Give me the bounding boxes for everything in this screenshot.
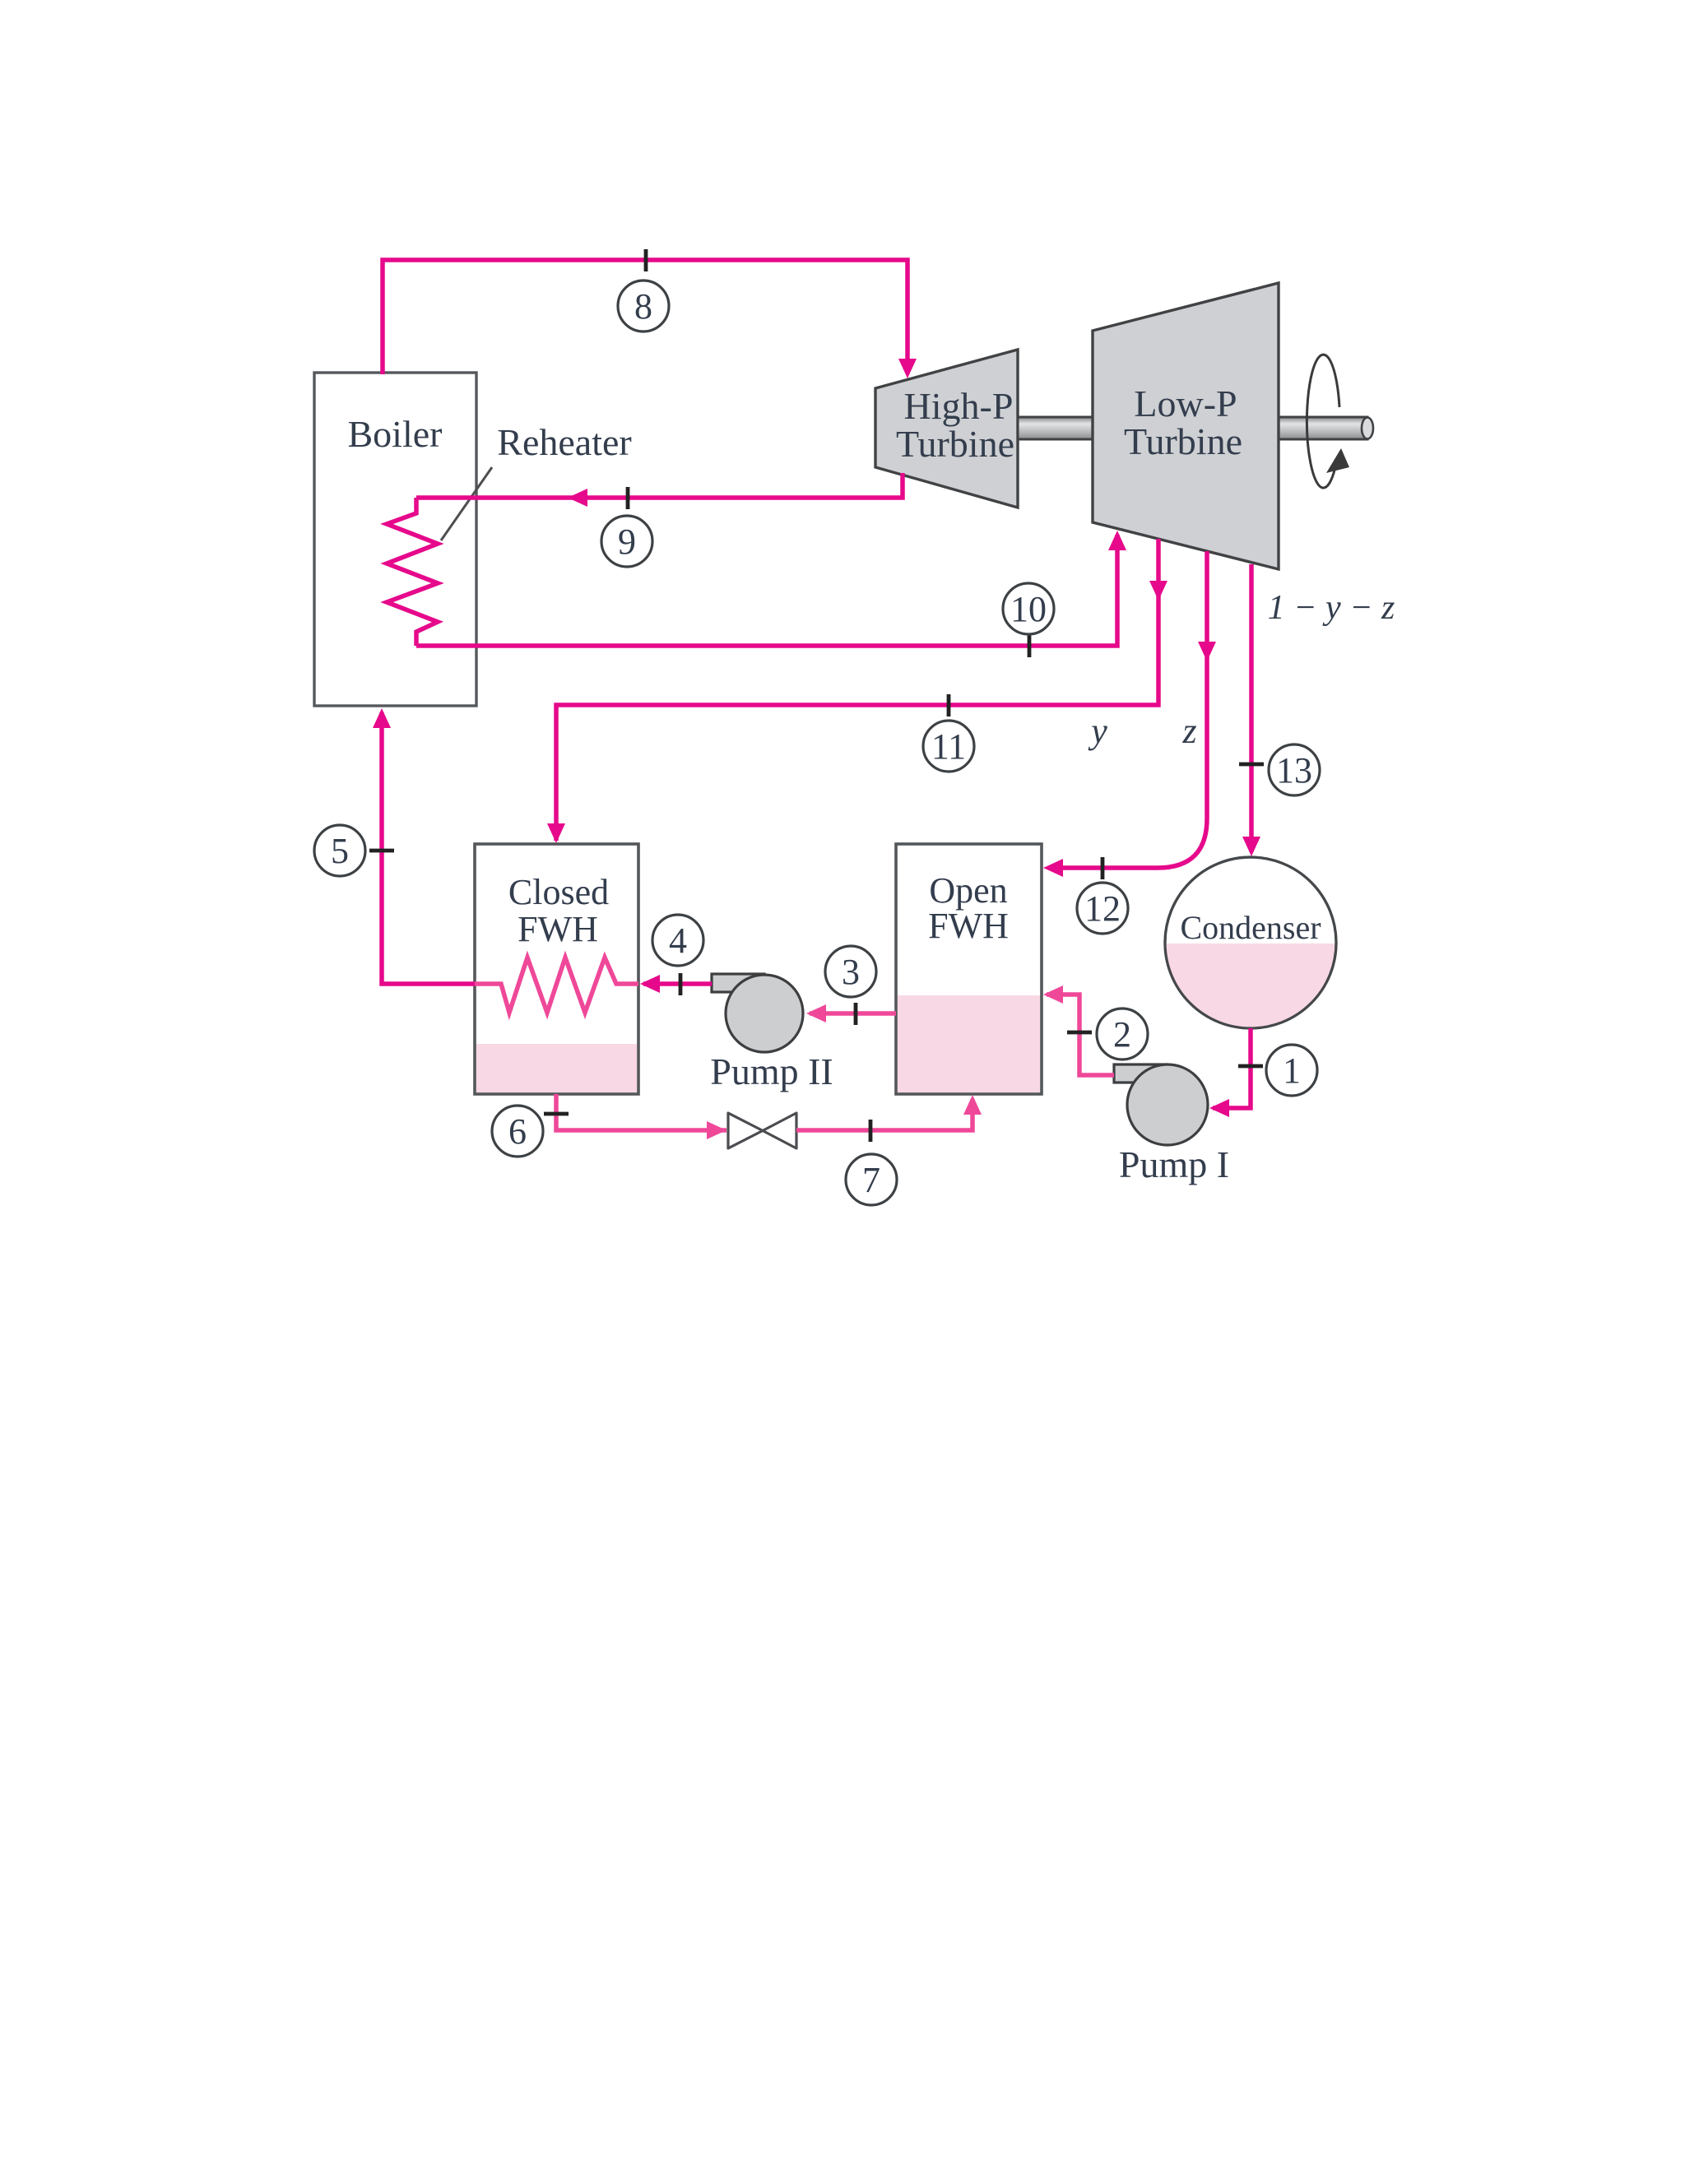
shaft right of LP turbine [1279,417,1373,439]
wire line 6: Closed FWH drain to valve [556,1094,726,1130]
node circle 10 [1003,583,1054,634]
node circle 1 [1266,1045,1317,1096]
svg-text:z: z [1181,711,1196,751]
arrowhead line 1 into Pump I [1209,1099,1229,1117]
node circle 3 [825,946,876,997]
svg-text:2: 2 [1113,1014,1131,1055]
node circle 12 [1077,883,1128,934]
expansion valve between 6 and 7 [728,1113,796,1148]
tick state 9 [626,487,630,509]
svg-text:8: 8 [634,286,652,327]
svg-text:Boiler: Boiler [348,413,443,455]
svg-text:11: 11 [931,726,966,767]
closed FWH [475,844,638,1094]
tick state 2 [1067,1031,1092,1035]
svg-text:Pump I: Pump I [1119,1143,1229,1185]
svg-text:1 − y − z: 1 − y − z [1268,589,1395,627]
boiler [314,373,476,706]
arrowhead line 7 into Open FWH bottom [963,1095,982,1115]
arrowhead line 2 into Open FWH [1043,985,1063,1004]
svg-text:Turbine: Turbine [1124,420,1242,462]
arrowhead line 9 [568,489,587,507]
svg-text:7: 7 [862,1160,880,1200]
reheater coil inside boiler [387,498,438,646]
Low-P turbine [1093,283,1279,569]
tick state 11 [947,694,951,716]
tick state 1 [1238,1064,1263,1069]
wire line 11: LP turbine extraction y to Closed FWH [556,539,1158,841]
svg-text:Reheater: Reheater [497,421,631,463]
svg-text:Low-P: Low-P [1134,383,1237,424]
pump I [1114,1064,1229,1185]
wire line 13: LP turbine exit 1-y-z to condenser [1249,564,1254,852]
closed FWH feedwater coil [475,958,638,1013]
arrowhead z mid [1198,642,1216,661]
wire line 3: Open FWH to Pump II [810,1011,896,1016]
svg-text:5: 5 [331,831,349,871]
arrowhead line 3 into Pump II [806,1004,826,1022]
svg-text:Condenser: Condenser [1180,909,1321,946]
svg-text:6: 6 [508,1111,527,1152]
arrowhead line 13 into condenser [1242,837,1260,856]
node circle 9 [601,516,652,567]
open FWH [896,844,1042,1094]
arrowhead line 12 into Open FWH [1043,859,1063,877]
node circle 5 [314,825,365,876]
wire line 5: Closed FWH to boiler [382,712,475,984]
arrowhead line 11 into Closed FWH [547,823,565,843]
rotation arrow around shaft [1307,355,1349,488]
tick state 8 [644,249,648,271]
arrowhead line 11 mid [1149,581,1167,600]
node circle 4 [652,915,703,966]
svg-text:1: 1 [1283,1050,1301,1091]
wire line 10: reheater exit to Low-P turbine [416,535,1117,646]
wire line 4: Pump II to Closed FWH coil [643,981,712,986]
pump II [710,974,833,1092]
arrowhead line 10 into LP turbine [1108,531,1126,550]
tick state 12 [1101,857,1105,879]
tick state 6 [544,1112,569,1116]
tick state 13 [1239,763,1264,767]
svg-text:FWH: FWH [518,909,598,949]
svg-text:FWH: FWH [928,906,1009,946]
svg-text:10: 10 [1010,589,1047,629]
tick state 4 [679,973,683,995]
node circle 11 [923,721,974,772]
wire line 8: boiler top to High-P turbine [383,260,907,374]
arrowhead line 8 into turbine [898,359,917,378]
wire line 2: Pump I to Open FWH [1047,995,1114,1075]
node circle 7 [846,1154,897,1205]
svg-text:y: y [1088,711,1107,751]
svg-text:High-P: High-P [904,385,1014,427]
svg-text:Turbine: Turbine [896,423,1014,465]
svg-text:4: 4 [669,920,687,961]
node circle 2 [1097,1009,1148,1060]
svg-text:9: 9 [618,522,636,562]
arrowhead line 6 before valve [707,1121,726,1139]
wire line z: LP turbine extraction z to Open FWH (state 12) [1053,551,1207,868]
wire line 9: High-P turbine exit to reheater [416,473,903,498]
svg-text:Closed: Closed [508,872,609,912]
arrowhead line 5 into boiler [373,708,391,728]
svg-text:13: 13 [1276,750,1312,791]
tick state 3 [854,1003,858,1025]
arrowhead line 4 into Closed FWH [640,975,660,993]
node circle 6 [492,1106,543,1157]
tick state 5 [369,849,394,853]
wire line 7: valve to Open FWH [796,1099,972,1130]
wire line 1: condenser to Pump I [1213,1028,1251,1108]
shaft between turbines [1018,417,1093,439]
svg-text:Pump II: Pump II [710,1050,833,1092]
node circle 13 [1269,744,1320,795]
tick state 10 [1028,635,1032,657]
condenser [1163,857,1338,1031]
tick state 7 [869,1120,873,1142]
svg-text:Open: Open [929,870,1007,911]
svg-text:12: 12 [1084,888,1121,929]
svg-text:3: 3 [842,952,860,992]
High-P turbine [875,350,1018,508]
node circle 8 [618,281,669,332]
